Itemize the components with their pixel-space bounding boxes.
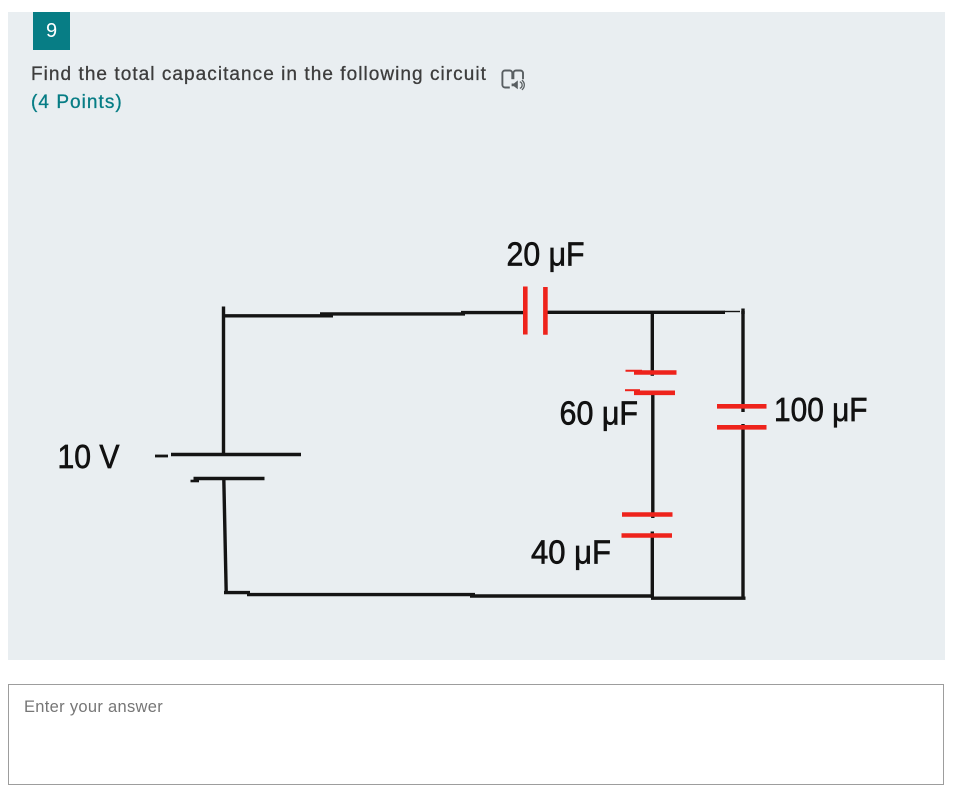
svg-text:100 μF: 100 μF (774, 391, 868, 428)
svg-text:40 μF: 40 μF (531, 534, 611, 571)
svg-text:10 V: 10 V (58, 438, 120, 475)
svg-text:60 μF: 60 μF (560, 395, 639, 432)
svg-text:20 μF: 20 μF (507, 236, 585, 273)
